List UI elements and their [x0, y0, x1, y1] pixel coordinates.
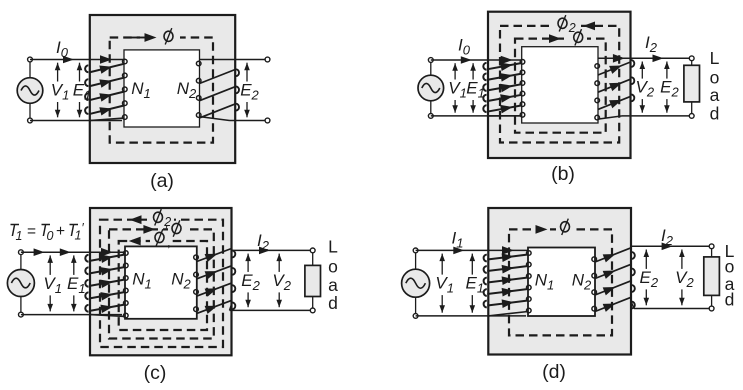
wire top left D: [416, 249, 528, 251]
terminal top right D: [709, 244, 714, 249]
voltage arrows E1 C: [71, 255, 77, 311]
voltage arrows V2 D: [679, 250, 685, 306]
wire bottom left C: [21, 314, 122, 316]
svg-text:(a): (a): [150, 170, 174, 192]
flux path phi B: [515, 39, 606, 133]
flux label phi B: [574, 32, 583, 42]
AC source A: [17, 78, 43, 104]
voltage arrows V2 B: [640, 62, 646, 113]
wire top left B: [431, 59, 522, 61]
flux label phi-prime C: [155, 232, 164, 242]
wire bottom right A: [230, 120, 268, 122]
current arrow I1 D: [453, 247, 464, 255]
flux arrow phi C: [143, 225, 155, 234]
flux arrow phi D: [533, 224, 550, 236]
primary winding N1 turns D: [484, 246, 531, 316]
wire top left C: [21, 251, 125, 253]
load resistor B: [684, 61, 700, 113]
voltage arrows E2 C: [245, 254, 251, 308]
wire source vertical B: [430, 60, 432, 75]
current arrow I0 B: [461, 56, 472, 64]
flux label phi C: [172, 223, 181, 233]
flux path phi-prime C: [119, 241, 207, 330]
wire top left A: [30, 59, 124, 61]
terminal top C: [19, 250, 24, 255]
voltage arrows V1 D: [439, 254, 445, 313]
load resistor C: [305, 253, 321, 308]
voltage arrows E2 B: [664, 62, 670, 113]
voltage arrows E2 D: [644, 250, 650, 306]
terminal top A: [28, 57, 33, 62]
wire bottom right B: [622, 115, 692, 117]
svg-text:,: ,: [167, 235, 171, 250]
terminal bottom C: [19, 312, 24, 317]
wire bottom right C: [230, 309, 313, 311]
primary winding N1 turns A: [85, 55, 127, 120]
transformer core B: [488, 12, 631, 158]
voltage arrows V1 A: [55, 63, 61, 118]
flux path phi2 B: [500, 26, 619, 143]
label I1 = I0 + I1-prime C: [11, 221, 85, 243]
terminal bottom D: [413, 314, 418, 319]
AC source C: [7, 270, 34, 297]
core window A: [124, 50, 200, 127]
load resistor D: [704, 249, 720, 306]
current arrow I2 B: [653, 55, 664, 63]
current arrow I2 D: [662, 243, 673, 251]
wire bottom left D: [416, 315, 526, 317]
flux path phi2 C: [100, 220, 223, 347]
current arrow I1 C: [34, 248, 45, 256]
core window B: [522, 47, 598, 123]
primary winding N1 turns B: [483, 56, 525, 117]
secondary winding N2 turns B: [595, 60, 634, 120]
flux label phi D: [556, 219, 574, 235]
svg-text:Load: Load: [710, 48, 720, 123]
terminal bottom right B: [689, 114, 694, 119]
current arrow I2 C: [259, 247, 270, 255]
flux label phi A: [160, 29, 177, 45]
terminal bottom right A: [265, 118, 270, 123]
wire bottom right D: [634, 308, 712, 310]
wire source vertical A: [29, 60, 31, 78]
voltage arrows V2 C: [276, 254, 282, 308]
flux arrow phi B: [549, 34, 561, 43]
wire bottom left B: [431, 115, 520, 117]
svg-text:(d): (d): [542, 361, 566, 383]
wire top right D: [631, 245, 712, 247]
terminal bottom A: [28, 118, 33, 123]
terminal top right B: [689, 56, 694, 61]
wire source vertical D: [415, 250, 417, 269]
flux arrow A: [140, 32, 180, 44]
transformer core A: [90, 15, 235, 163]
current arrow I0 A: [63, 56, 74, 64]
wire source vertical C: [20, 252, 22, 269]
wire top right C: [232, 249, 313, 251]
flux path phi C: [109, 229, 214, 338]
flux arrow phi-prime C: [129, 237, 141, 246]
svg-text:Load: Load: [328, 237, 338, 313]
svg-text:=: =: [27, 223, 36, 240]
terminal top right C: [310, 248, 315, 253]
voltage arrows E1 A: [77, 63, 83, 118]
voltage arrows V1 C: [47, 255, 53, 311]
wire bottom left A: [30, 120, 122, 122]
terminal bottom right D: [709, 306, 714, 311]
core window D: [528, 248, 595, 317]
coil arrow on top wire B: [613, 54, 625, 63]
flux arrow phi2 B: [553, 16, 579, 33]
terminal top B: [428, 58, 433, 63]
terminal top right A: [265, 57, 270, 62]
flux label phi2 B: [558, 18, 567, 28]
secondary winding N2 turns C: [194, 249, 236, 314]
wire top right A: [200, 59, 268, 61]
wire top right B: [598, 57, 692, 59]
voltage arrows E1 B: [470, 63, 476, 112]
secondary winding N2 turns A: [196, 61, 239, 120]
flux path phi D: [509, 229, 612, 335]
terminal bottom right C: [310, 308, 315, 313]
voltage arrows E1 D: [470, 254, 476, 313]
secondary winding N2 turns D: [592, 248, 635, 312]
terminal bottom B: [428, 114, 433, 119]
flux label phi2 C: [154, 212, 163, 222]
flux path phi A: [110, 38, 213, 143]
AC source B: [418, 75, 444, 101]
flux arrow phi2 C: [147, 210, 174, 227]
core window C: [125, 246, 197, 318]
svg-text:Load: Load: [725, 241, 735, 310]
voltage arrows V1 B: [452, 63, 458, 112]
voltage arrows E2 A: [244, 63, 250, 118]
transformer core C: [90, 208, 232, 355]
transformer core D: [488, 208, 631, 355]
svg-text:(c): (c): [144, 362, 167, 384]
primary winding N1 turns C: [85, 248, 128, 318]
terminal top D: [413, 248, 418, 253]
AC source D: [402, 269, 430, 297]
svg-text:+: +: [56, 223, 65, 240]
svg-text:(b): (b): [551, 163, 575, 185]
